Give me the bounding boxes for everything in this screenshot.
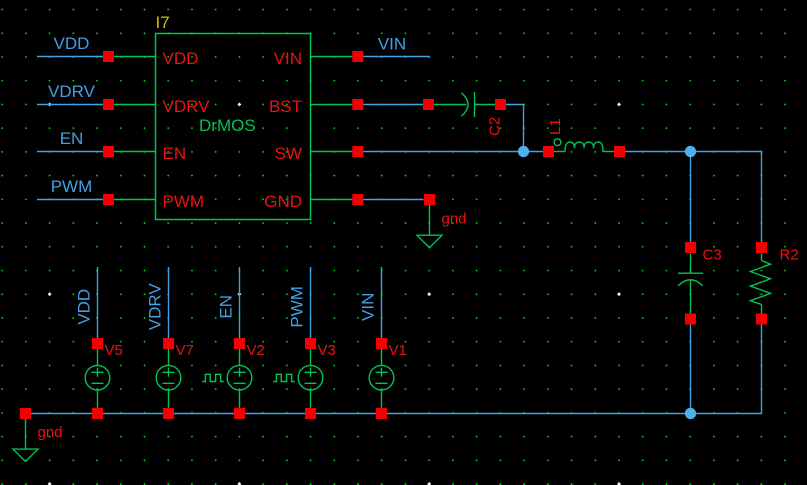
pin square SW of I7 xyxy=(352,146,363,157)
svg-text:VIN: VIN xyxy=(274,49,302,68)
svg-text:C3: C3 xyxy=(703,247,722,264)
pin square EN of I7 xyxy=(103,146,114,157)
wire net VDD to source xyxy=(97,267,99,338)
pin GND of I7 (right stub) xyxy=(310,199,352,201)
terminal square V1 minus xyxy=(376,408,387,419)
svg-text:SW: SW xyxy=(275,144,302,163)
voltage source V3 xyxy=(298,349,323,408)
svg-text:VDRV: VDRV xyxy=(146,283,165,331)
svg-text:V1: V1 xyxy=(389,342,407,359)
svg-text:PWM: PWM xyxy=(288,286,307,328)
terminal square L1 left xyxy=(543,146,554,157)
wire net PWM to source xyxy=(310,267,312,338)
svg-text:V7: V7 xyxy=(176,342,194,359)
capacitor C3 xyxy=(678,253,703,313)
terminal square gnd bottom xyxy=(20,408,31,419)
pin BST of I7 (right stub) xyxy=(310,104,352,106)
pin square VDD of I7 xyxy=(103,51,114,62)
svg-text:VIN: VIN xyxy=(378,34,406,53)
wire C3 bottom to ground rail xyxy=(690,325,692,414)
terminal square gnd top xyxy=(424,194,435,205)
ground gnd (bottom rail) xyxy=(13,419,38,462)
svg-text:GND: GND xyxy=(264,192,302,211)
pulse waveform glyph of V2 xyxy=(202,374,224,381)
voltage source V2 xyxy=(227,349,252,408)
pulse waveform glyph of V3 xyxy=(273,374,295,381)
svg-text:PWM: PWM xyxy=(51,177,93,196)
wire net PWM (to I7 PWM pin) xyxy=(37,199,103,201)
wire output node down to C3 top xyxy=(690,152,692,243)
terminal square V7 minus xyxy=(163,408,174,419)
terminal square R2 top xyxy=(756,242,767,253)
terminal square V2 minus xyxy=(234,408,245,419)
pin VIN of I7 (right stub) xyxy=(310,56,352,58)
pin VDD of I7 (left stub) xyxy=(114,56,155,58)
voltage source V5 xyxy=(85,349,110,408)
svg-text:EN: EN xyxy=(60,129,84,148)
svg-text:VIN: VIN xyxy=(359,293,378,321)
resistor R2 xyxy=(751,253,771,313)
terminal square V5 minus xyxy=(92,408,103,419)
svg-text:PWM: PWM xyxy=(163,192,205,211)
svg-text:VDD: VDD xyxy=(163,49,199,68)
terminal square R2 bottom xyxy=(756,314,767,325)
terminal square V2 plus xyxy=(234,338,245,349)
pin square PWM of I7 xyxy=(103,194,114,205)
junction ground rail / C3 bottom xyxy=(685,408,696,419)
voltage source V7 xyxy=(156,349,181,408)
terminal square V5 plus xyxy=(92,338,103,349)
svg-text:V3: V3 xyxy=(318,342,336,359)
svg-text:L1: L1 xyxy=(547,118,564,135)
svg-text:R2: R2 xyxy=(780,247,799,264)
wire C2 right terminal to SW node (jog down) xyxy=(506,105,524,152)
junction output node (L1/C3/R2) xyxy=(685,146,696,157)
capacitor C2 xyxy=(434,92,495,117)
svg-text:gnd: gnd xyxy=(442,211,467,228)
svg-text:VDRV: VDRV xyxy=(163,97,211,116)
svg-text:V5: V5 xyxy=(105,342,123,359)
svg-text:EN: EN xyxy=(217,295,236,319)
pin square BST of I7 xyxy=(352,99,363,110)
terminal square C2 left xyxy=(423,99,434,110)
terminal square V1 plus xyxy=(376,338,387,349)
pin EN of I7 (left stub) xyxy=(114,151,155,153)
svg-text:V2: V2 xyxy=(247,342,265,359)
wire L1 right terminal to output node and R2 branch xyxy=(625,152,762,243)
svg-text:C2: C2 xyxy=(487,117,504,136)
pin square GND of I7 xyxy=(352,194,363,205)
pin PWM of I7 (left stub) xyxy=(114,199,155,201)
wire net VIN to source xyxy=(381,267,383,338)
wire net VDRV to source xyxy=(168,267,170,338)
wire R2 bottom to ground rail xyxy=(691,325,762,414)
wire GND pin to ground xyxy=(363,199,423,201)
pin square VIN of I7 xyxy=(352,51,363,62)
terminal square V3 plus xyxy=(305,338,316,349)
terminal square L1 right xyxy=(614,146,625,157)
svg-text:I7: I7 xyxy=(156,13,170,32)
inductor L1 xyxy=(554,139,614,152)
wire BST pin to C2 left terminal xyxy=(363,104,423,106)
terminal square C2 right xyxy=(495,99,506,110)
wire ground rail xyxy=(26,413,691,415)
svg-text:DrMOS: DrMOS xyxy=(199,116,256,135)
wire SW pin to L1 left terminal xyxy=(363,151,543,153)
wire net EN (to I7 EN pin) xyxy=(37,151,103,153)
svg-text:VDD: VDD xyxy=(75,289,94,325)
wire net VDRV (to I7 VDRV pin) xyxy=(37,104,103,106)
ground gnd (top, at I7 GND pin) xyxy=(417,205,442,248)
wire net EN to source xyxy=(239,267,241,338)
terminal square V3 minus xyxy=(305,408,316,419)
pin SW of I7 (right stub) xyxy=(310,151,352,153)
wire net VDD (to I7 VDD pin) xyxy=(37,56,103,58)
svg-text:BST: BST xyxy=(269,97,302,116)
terminal square C3 bottom xyxy=(685,314,696,325)
junction SW node (C2/L1) xyxy=(518,146,529,157)
voltage source V1 xyxy=(369,349,394,408)
pin VDRV of I7 (left stub) xyxy=(114,104,155,106)
svg-text:EN: EN xyxy=(163,144,187,163)
svg-text:VDRV: VDRV xyxy=(48,82,96,101)
svg-text:gnd: gnd xyxy=(38,424,63,441)
terminal square C3 top xyxy=(685,242,696,253)
pin square VDRV of I7 xyxy=(103,99,114,110)
terminal square V7 plus xyxy=(163,338,174,349)
wire net VIN (from I7 VIN pin) xyxy=(363,56,429,58)
svg-text:VDD: VDD xyxy=(54,34,90,53)
DrMOS instance I7 body xyxy=(156,34,311,220)
